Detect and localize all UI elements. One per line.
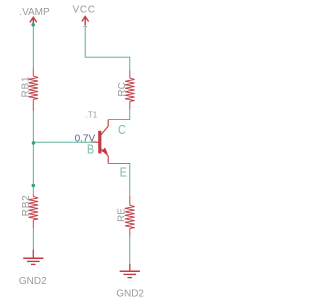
wire RB1 to RB2 bbox=[32, 111, 34, 194]
svg-text:0.7V: 0.7V bbox=[75, 134, 96, 145]
emitter diagonal bbox=[101, 149, 109, 156]
emitter arrow bbox=[101, 148, 108, 154]
pin marker base bbox=[94, 141, 96, 143]
wire base horizontal bbox=[33, 141, 92, 143]
resistor RB2 bbox=[28, 194, 38, 228]
resistor RB1 bbox=[28, 68, 38, 111]
power flag VCC arrow bbox=[82, 17, 89, 26]
ground GND2 left bbox=[23, 250, 43, 265]
wire RE to ground bbox=[129, 237, 131, 265]
wire VAMP to RB1 bbox=[32, 25, 34, 68]
junction node base tee bbox=[32, 141, 36, 145]
svg-text:RC: RC bbox=[117, 82, 128, 96]
svg-text:B: B bbox=[87, 143, 94, 157]
svg-text:GND2: GND2 bbox=[19, 276, 47, 287]
svg-text:GND2: GND2 bbox=[116, 288, 144, 299]
base bar bbox=[98, 131, 101, 154]
resistor RC bbox=[125, 71, 135, 110]
node dot above RB2 bbox=[32, 184, 36, 188]
svg-text:RB2: RB2 bbox=[21, 194, 32, 216]
svg-text:RB1: RB1 bbox=[21, 76, 32, 98]
svg-text:VCC: VCC bbox=[73, 5, 96, 16]
pin tick VCC bbox=[83, 26, 87, 28]
svg-text:.VAMP: .VAMP bbox=[19, 7, 50, 18]
collector pin bbox=[107, 120, 109, 127]
wire emitter to RE bbox=[108, 163, 130, 196]
wire RB2 to ground bbox=[32, 228, 34, 249]
svg-text:E: E bbox=[120, 166, 127, 180]
junction dot VAMP bbox=[31, 23, 35, 27]
net flag VAMP arrow bbox=[30, 17, 37, 25]
svg-text:RE: RE bbox=[116, 208, 127, 222]
emitter pin bbox=[107, 156, 109, 163]
wire VCC to RC bbox=[85, 27, 130, 71]
svg-text:C: C bbox=[118, 123, 126, 137]
resistor RE bbox=[125, 196, 135, 237]
base pin bbox=[93, 141, 99, 143]
transistor T1 bbox=[93, 120, 109, 163]
wire RC to collector bbox=[108, 110, 130, 120]
svg-text:.T1: .T1 bbox=[86, 110, 98, 119]
ground GND2 right bbox=[120, 264, 140, 278]
collector diagonal bbox=[101, 126, 109, 135]
